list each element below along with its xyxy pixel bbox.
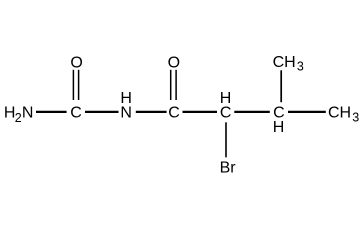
svg-text:C: C: [168, 104, 180, 121]
svg-text:H: H: [120, 90, 132, 107]
svg-text:CH: CH: [328, 104, 351, 121]
svg-text:N: N: [22, 104, 34, 121]
svg-text:O: O: [70, 54, 82, 71]
svg-text:C: C: [220, 104, 232, 121]
svg-text:N: N: [120, 104, 132, 121]
svg-text:H: H: [273, 119, 285, 136]
svg-text:3: 3: [352, 111, 359, 125]
svg-text:C: C: [70, 104, 82, 121]
svg-text:3: 3: [297, 60, 304, 74]
svg-text:CH: CH: [273, 54, 296, 71]
svg-text:O: O: [168, 54, 180, 71]
svg-text:H: H: [220, 90, 232, 107]
svg-text:Br: Br: [220, 160, 237, 177]
svg-text:2: 2: [15, 111, 22, 125]
